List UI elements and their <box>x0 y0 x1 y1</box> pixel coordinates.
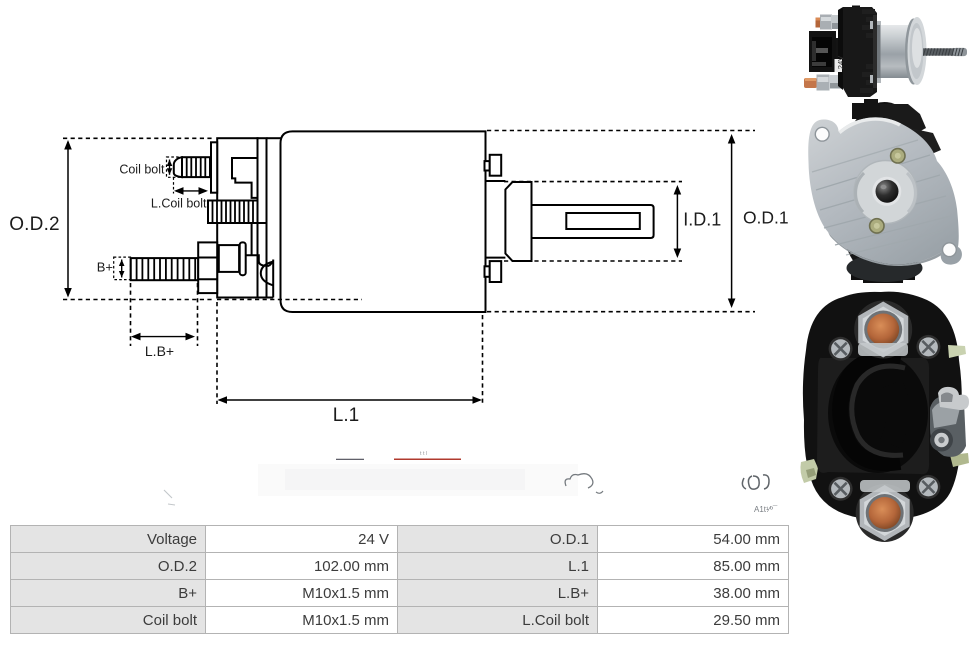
svg-text:O.D.2: O.D.2 <box>9 214 60 235</box>
svg-text:t t l: t t l <box>420 451 427 457</box>
svg-text:B+: B+ <box>97 260 113 275</box>
svg-text:Coil bolt: Coil bolt <box>119 163 165 177</box>
svg-text:O.D.1: O.D.1 <box>743 208 789 228</box>
svg-text:L.1: L.1 <box>333 405 359 426</box>
svg-text:L.B+: L.B+ <box>145 343 174 359</box>
svg-text:A1t¹⁄º¯: A1t¹⁄º¯ <box>754 505 778 514</box>
svg-text:L.Coil bolt: L.Coil bolt <box>151 197 207 211</box>
svg-text:I.D.1: I.D.1 <box>683 210 721 230</box>
svg-text:24V: 24V <box>836 56 845 69</box>
